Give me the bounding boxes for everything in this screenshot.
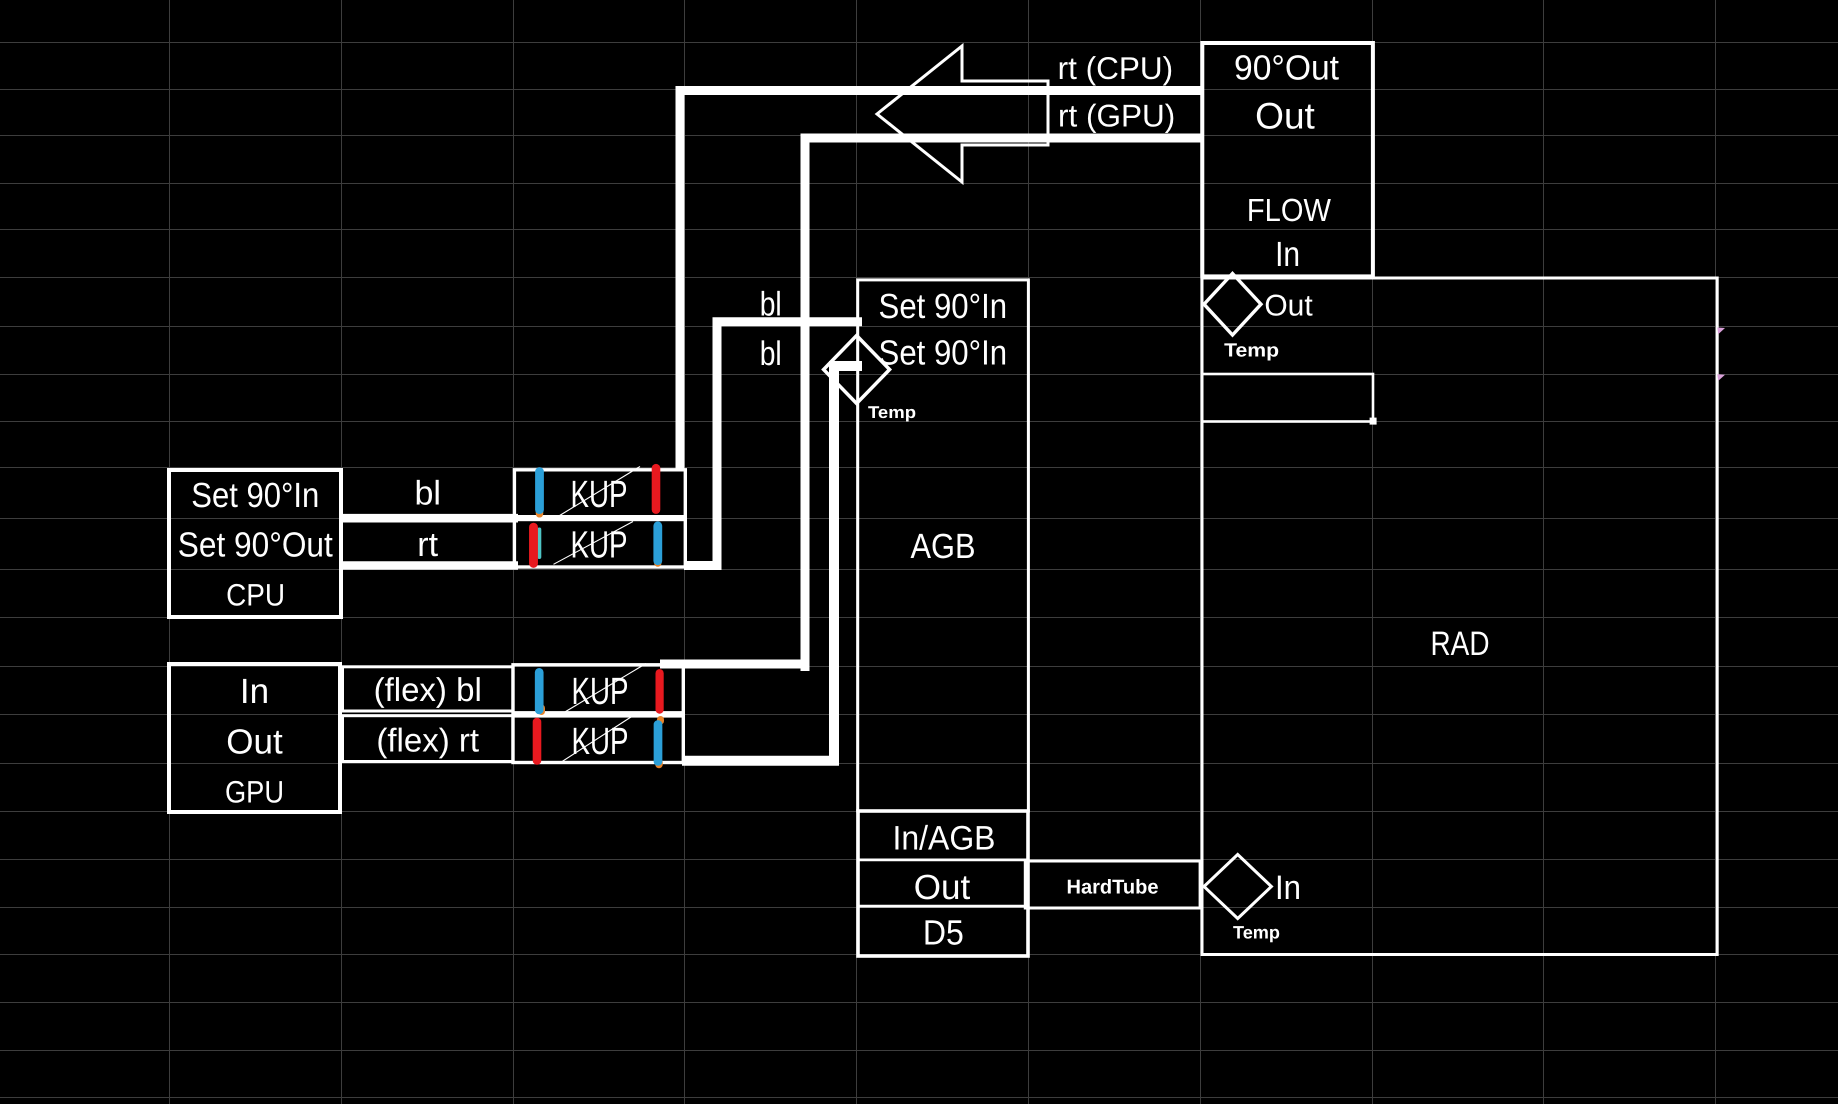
label box (flex) bl xyxy=(343,667,513,711)
svg-text:D5: D5 xyxy=(923,914,964,953)
tube bl: CPU to KUP-1 xyxy=(339,514,518,523)
tube flex rt: AGB Set90In-2 to GPU KUP-2 xyxy=(682,366,862,761)
svg-text:90°Out: 90°Out xyxy=(1234,48,1339,87)
orange tip GPU KUP-1 left xyxy=(538,708,545,712)
svg-text:RAD: RAD xyxy=(1431,625,1490,663)
svg-text:Out: Out xyxy=(914,868,971,907)
selected cell highlight xyxy=(1202,374,1377,425)
red QD GPU KUP-1 right xyxy=(655,673,663,709)
tube rt(GPU): FLOW to GPU riser xyxy=(805,138,1201,671)
svg-text:Set 90°In: Set 90°In xyxy=(879,287,1008,326)
svg-text:(flex) bl: (flex) bl xyxy=(374,671,482,708)
svg-text:KUP: KUP xyxy=(571,524,628,566)
svg-text:bl: bl xyxy=(760,285,782,323)
svg-text:rt (GPU): rt (GPU) xyxy=(1058,98,1175,134)
tube rt(CPU): FLOW to CPU KUP-1 xyxy=(680,91,1202,472)
blue QD CPU KUP-2 right xyxy=(653,526,662,561)
orange tip CPU KUP-2 right xyxy=(654,560,662,563)
HardTube box xyxy=(1025,861,1200,908)
temp sensor diamond RAD In xyxy=(1204,855,1271,919)
CPU block box xyxy=(169,470,341,617)
pink marker lower xyxy=(1717,374,1725,381)
red QD CPU KUP-2 left xyxy=(529,527,538,563)
D5 pump box xyxy=(858,811,1028,956)
blue QD GPU KUP-2 right xyxy=(654,725,663,762)
AGB reservoir box xyxy=(858,280,1029,811)
svg-text:Temp: Temp xyxy=(1224,340,1279,361)
svg-text:Set 90°Out: Set 90°Out xyxy=(178,525,333,564)
svg-text:KUP: KUP xyxy=(572,671,629,713)
svg-text:AGB: AGB xyxy=(911,527,976,566)
blue QD GPU KUP-1 left xyxy=(535,672,544,710)
blue QD CPU KUP-1 left xyxy=(535,472,544,510)
svg-text:In: In xyxy=(1275,869,1301,907)
teal sliver CPU KUP-2 left xyxy=(537,530,541,558)
RAD radiator box xyxy=(1202,278,1717,955)
svg-text:In/AGB: In/AGB xyxy=(893,819,996,857)
tube rt(GPU) horizontal into GPU KUP-1 xyxy=(660,660,805,669)
temp sensor diamond AGB xyxy=(824,336,890,404)
red QD CPU KUP-1 right xyxy=(652,468,661,509)
svg-text:Set 90°In: Set 90°In xyxy=(191,476,319,515)
KUP coupling box CPU-1 xyxy=(514,470,685,517)
svg-text:rt: rt xyxy=(417,526,438,564)
svg-text:Set 90°In: Set 90°In xyxy=(879,333,1008,372)
svg-text:FLOW: FLOW xyxy=(1247,192,1332,228)
svg-text:In: In xyxy=(1275,235,1300,274)
KUP coupling box CPU-2 xyxy=(514,520,685,568)
svg-text:rt (CPU): rt (CPU) xyxy=(1058,50,1173,86)
svg-text:Out: Out xyxy=(226,722,283,761)
svg-text:In: In xyxy=(240,672,269,711)
label box (flex) rt xyxy=(343,716,513,762)
KUP coupling box GPU-1 xyxy=(513,665,683,713)
divider In/AGB row xyxy=(858,859,1028,862)
svg-text:Out: Out xyxy=(1255,95,1315,136)
svg-text:Temp: Temp xyxy=(868,403,916,422)
red QD GPU KUP-2 left xyxy=(533,722,542,761)
svg-text:KUP: KUP xyxy=(572,721,629,763)
divider Out row xyxy=(858,905,1028,908)
svg-text:KUP: KUP xyxy=(571,474,628,516)
KUP coupling box GPU-2 xyxy=(513,716,683,763)
svg-text:GPU: GPU xyxy=(225,774,284,809)
tube rt: CPU to KUP-2 xyxy=(339,561,518,570)
svg-text:bl: bl xyxy=(760,335,782,373)
GPU block box xyxy=(169,664,340,812)
diagonal GPU KUP-1 xyxy=(564,664,646,713)
orange tip GPU KUP-2 right bottom xyxy=(655,762,663,765)
svg-text:Temp: Temp xyxy=(1233,923,1280,943)
tube bl: AGB Set90In-1 to CPU KUP-2 xyxy=(684,322,862,566)
FLOW meter box xyxy=(1202,43,1373,276)
svg-text:Out: Out xyxy=(1264,289,1313,322)
svg-text:bl: bl xyxy=(414,474,440,512)
flow direction arrow xyxy=(877,46,1048,182)
svg-text:CPU: CPU xyxy=(226,578,285,613)
temp sensor diamond RAD Out xyxy=(1204,274,1261,336)
diagonal GPU KUP-2 xyxy=(559,717,631,764)
svg-text:(flex) rt: (flex) rt xyxy=(376,722,479,759)
diagonal CPU KUP-2 xyxy=(554,522,634,565)
pink marker upper xyxy=(1717,328,1725,335)
svg-text:HardTube: HardTube xyxy=(1067,876,1159,898)
diagonal CPU KUP-1 xyxy=(558,467,640,517)
orange tip CPU KUP-1 left xyxy=(536,509,544,514)
orange tip GPU KUP-2 right top xyxy=(657,720,664,722)
